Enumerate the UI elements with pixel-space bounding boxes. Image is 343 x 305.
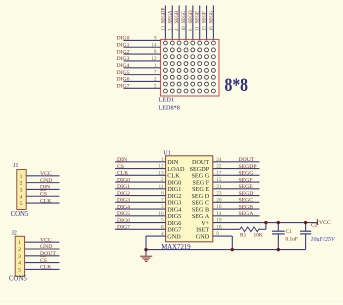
svg-text:8*8: 8*8 [225,75,249,96]
svg-text:DIG4: DIG4 [117,204,130,210]
svg-text:DIG7: DIG7 [117,225,130,231]
wire matrix column SEGG [212,6,214,40]
svg-text:5: 5 [18,267,21,273]
svg-text:DIG0: DIG0 [117,177,130,183]
node junction C1 top [277,221,280,224]
svg-text:SEGB: SEGB [175,10,180,23]
LED matrix LED1 body [161,40,220,97]
wire J2 pin 4 [25,262,60,264]
svg-text:CON5: CON5 [9,275,27,282]
wire matrix row DIG6 [124,80,161,82]
svg-text:DIG2: DIG2 [117,49,130,55]
overline CS [117,161,123,163]
svg-text:DIG1: DIG1 [117,42,130,48]
wire J2 pin 5 [25,268,60,270]
svg-text:SEGE: SEGE [239,184,254,190]
svg-text:SEGE: SEGE [196,11,201,24]
connector J2 body [15,236,24,276]
svg-text:12: 12 [158,164,164,170]
op-amp U1 body (MAX7219) [166,156,213,242]
wire U1 right pin 21 [213,188,260,190]
ground [145,250,147,256]
wire U1 left pin 13 [115,174,166,176]
svg-text:J2: J2 [12,230,17,236]
svg-text:1: 1 [161,157,164,163]
svg-text:SEGC: SEGC [239,198,254,204]
svg-text:3: 3 [20,187,23,193]
wire J1 pin 3 [26,188,59,190]
svg-text:7: 7 [161,197,164,203]
svg-text:4: 4 [18,261,21,267]
wire U1 GND pin 4 to ground [146,235,166,237]
capacitor C1 [277,223,279,232]
wire U1 right pin 17 [213,174,260,176]
wire U1 left pin 7 [115,201,166,203]
svg-text:DIG3: DIG3 [117,198,130,204]
svg-text:CS: CS [40,191,47,197]
wire U1 left pin 3 [115,208,166,210]
svg-text:SEGA: SEGA [168,10,173,23]
wire ISET pin 18 to R1 [213,228,240,230]
wire J2 pin 2 [25,248,60,250]
wire U1 right pin 16 [213,208,260,210]
wire matrix row DIG5 [124,74,161,76]
node junction ground rail left [144,248,147,251]
svg-text:8: 8 [154,49,157,55]
svg-text:8: 8 [161,224,164,230]
svg-text:16: 16 [209,26,214,31]
svg-text:SEGA: SEGA [239,211,255,217]
svg-text:DIG6: DIG6 [117,218,130,224]
wire U1 right pin 22 [213,168,260,170]
svg-text:U1: U1 [163,151,170,157]
svg-text:15: 15 [203,26,208,31]
svg-text:10uF/25V: 10uF/25V [311,237,336,243]
svg-text:CS: CS [40,258,47,264]
svg-text:0.1uF: 0.1uF [286,236,298,242]
wire matrix row DIG1 [124,46,161,48]
svg-text:1: 1 [20,174,23,180]
svg-text:6: 6 [161,191,164,197]
svg-text:DIG7: DIG7 [117,84,130,90]
wire U1 right pin 15 [213,181,260,183]
svg-text:VCC: VCC [40,171,52,177]
wire U1 left pin 5 [115,222,166,224]
wire U1 left pin 1 [115,161,166,163]
svg-text:DOUT: DOUT [239,157,255,163]
wire J2 pin 1 [25,241,60,243]
svg-text:DIG4: DIG4 [117,63,130,69]
svg-text:VCC: VCC [319,220,331,226]
svg-text:11: 11 [158,184,163,190]
wire U1 right pin 23 [213,195,260,197]
svg-text:DIG6: DIG6 [117,77,130,83]
wire U1 left pin 8 [115,228,166,230]
wire GND pin 9 down to rail [213,235,233,237]
wire matrix row DIG2 [124,53,161,55]
overline CS (J2) [40,255,46,257]
wire matrix column SEGE [199,6,201,40]
svg-text:CON5: CON5 [11,211,29,218]
wire J2 pin 3 [25,255,60,257]
wire matrix column SEGC [185,6,187,40]
wire matrix row DIG0 [124,39,161,41]
power VCC [306,222,318,224]
svg-text:2: 2 [18,247,21,253]
svg-text:SEGB: SEGB [239,204,254,210]
svg-text:DIN: DIN [40,185,50,191]
node junction C1 bottom [277,248,280,251]
svg-text:9: 9 [154,36,157,42]
wire U1 left pin 2 [115,181,166,183]
svg-text:10K: 10K [254,232,263,238]
svg-text:4: 4 [20,194,23,200]
wire U1 left pin 10 [115,215,166,217]
svg-text:5: 5 [161,218,164,224]
svg-text:SEGG: SEGG [239,171,254,177]
wire U1 right pin 24 [213,161,260,163]
svg-text:3: 3 [161,204,164,210]
svg-text:GND: GND [196,233,210,240]
svg-text:SEGD: SEGD [239,191,254,197]
wire R1 right lead [259,228,266,230]
svg-text:DIG3: DIG3 [117,56,130,62]
svg-text:LED8*8: LED8*8 [159,104,180,111]
node junction R1 top [264,221,267,224]
wire matrix column SEGB [178,6,180,40]
LED matrix dots [163,41,215,93]
wire U1 left pin 6 [115,195,166,197]
svg-text:VCC: VCC [40,237,52,243]
svg-text:5: 5 [20,201,23,207]
wire ground rail [146,249,306,251]
wire matrix column SEGDP [164,6,166,40]
svg-text:SEGDP: SEGDP [161,7,166,23]
svg-text:SEGD: SEGD [189,10,194,23]
wire matrix row DIG3 [124,60,161,62]
svg-text:1: 1 [154,63,157,69]
svg-text:12: 12 [151,56,157,62]
svg-text:SEGG: SEGG [209,10,214,23]
svg-text:LED1: LED1 [159,97,175,104]
svg-text:CLK: CLK [117,171,129,177]
node junction GND9 rail [231,248,234,251]
svg-text:GND: GND [167,233,181,240]
svg-text:C1: C1 [286,229,293,235]
wire U1 right pin 20 [213,201,260,203]
svg-text:13: 13 [158,170,164,176]
svg-text:C2: C2 [311,223,318,229]
svg-text:DIG5: DIG5 [117,70,130,76]
svg-text:1: 1 [18,240,21,246]
svg-text:R1: R1 [240,232,247,238]
wire U1 left pin 12 [115,168,166,170]
wire J1 pin 5 [26,202,59,204]
wire matrix row DIG4 [124,67,161,69]
wire U1 right pin 14 [213,215,260,217]
svg-text:GND: GND [40,244,52,250]
svg-text:DIG5: DIG5 [117,211,130,217]
svg-text:J1: J1 [13,163,18,169]
resistor R1 [240,227,259,232]
wire matrix column SEGF [206,6,208,40]
wire J1 pin 4 [26,195,59,197]
svg-text:DIG1: DIG1 [117,184,130,190]
svg-text:13: 13 [161,26,166,31]
svg-text:5: 5 [154,83,157,89]
svg-text:SEGF: SEGF [203,11,208,23]
svg-text:11: 11 [196,26,201,31]
wire matrix column SEGD [192,6,194,40]
wire V+ pin 19 to VCC rail [213,222,306,224]
svg-text:14: 14 [151,42,157,48]
svg-text:DIG2: DIG2 [117,191,130,197]
svg-text:2: 2 [20,181,23,187]
svg-text:CLK: CLK [40,198,52,204]
svg-text:SEGF: SEGF [239,177,253,183]
svg-text:10: 10 [182,26,187,31]
wire J1 pin 2 [26,182,59,184]
wire J1 pin 1 [26,175,59,177]
connector J1 body [17,170,26,210]
svg-text:2: 2 [161,177,164,183]
wire U1 left pin 11 [115,188,166,190]
overline CS (J1) [40,189,46,191]
svg-text:10: 10 [158,211,164,217]
svg-text:CLK: CLK [40,265,52,271]
svg-text:SEGDP: SEGDP [239,164,257,170]
svg-text:3: 3 [18,254,21,260]
svg-text:DIG0: DIG0 [117,36,130,42]
wire matrix column SEGA [171,6,173,40]
wire matrix row DIG7 [124,87,161,89]
svg-text:7: 7 [154,70,157,76]
capacitor C2 [305,223,307,232]
svg-text:SEGC: SEGC [182,10,187,23]
svg-text:CS: CS [117,164,124,170]
svg-text:2: 2 [154,77,157,83]
svg-text:GND: GND [40,178,52,184]
node junction C2/VCC [304,221,307,224]
